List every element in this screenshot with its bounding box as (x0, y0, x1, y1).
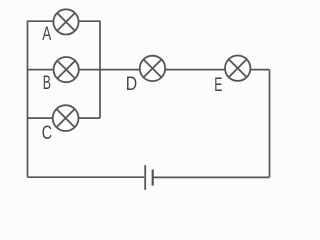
wire outer right vertical (269, 70, 271, 178)
svg-text:C: C (42, 123, 52, 144)
svg-text:E: E (214, 75, 222, 96)
wire bottom left to battery (28, 176, 145, 178)
lamp E (225, 55, 250, 80)
battery long plate (144, 165, 146, 190)
wire battery to bottom right (153, 176, 269, 178)
wire middle branch (lamp B through D and E) (28, 69, 270, 71)
wire left vertical (27, 21, 29, 178)
lamp B (54, 57, 79, 82)
svg-text:D: D (126, 74, 137, 95)
wire bottom branch (lamp C branch) (28, 117, 101, 119)
lamp C (53, 105, 79, 131)
wire right vertical of parallel block (99, 21, 101, 119)
battery short plate (152, 170, 154, 186)
lamp D (140, 56, 165, 81)
svg-text:B: B (43, 73, 51, 94)
battery cell (145, 165, 153, 190)
svg-text:A: A (42, 24, 51, 45)
wire top branch (lamp A branch) (28, 20, 101, 22)
lamp A (53, 9, 78, 34)
